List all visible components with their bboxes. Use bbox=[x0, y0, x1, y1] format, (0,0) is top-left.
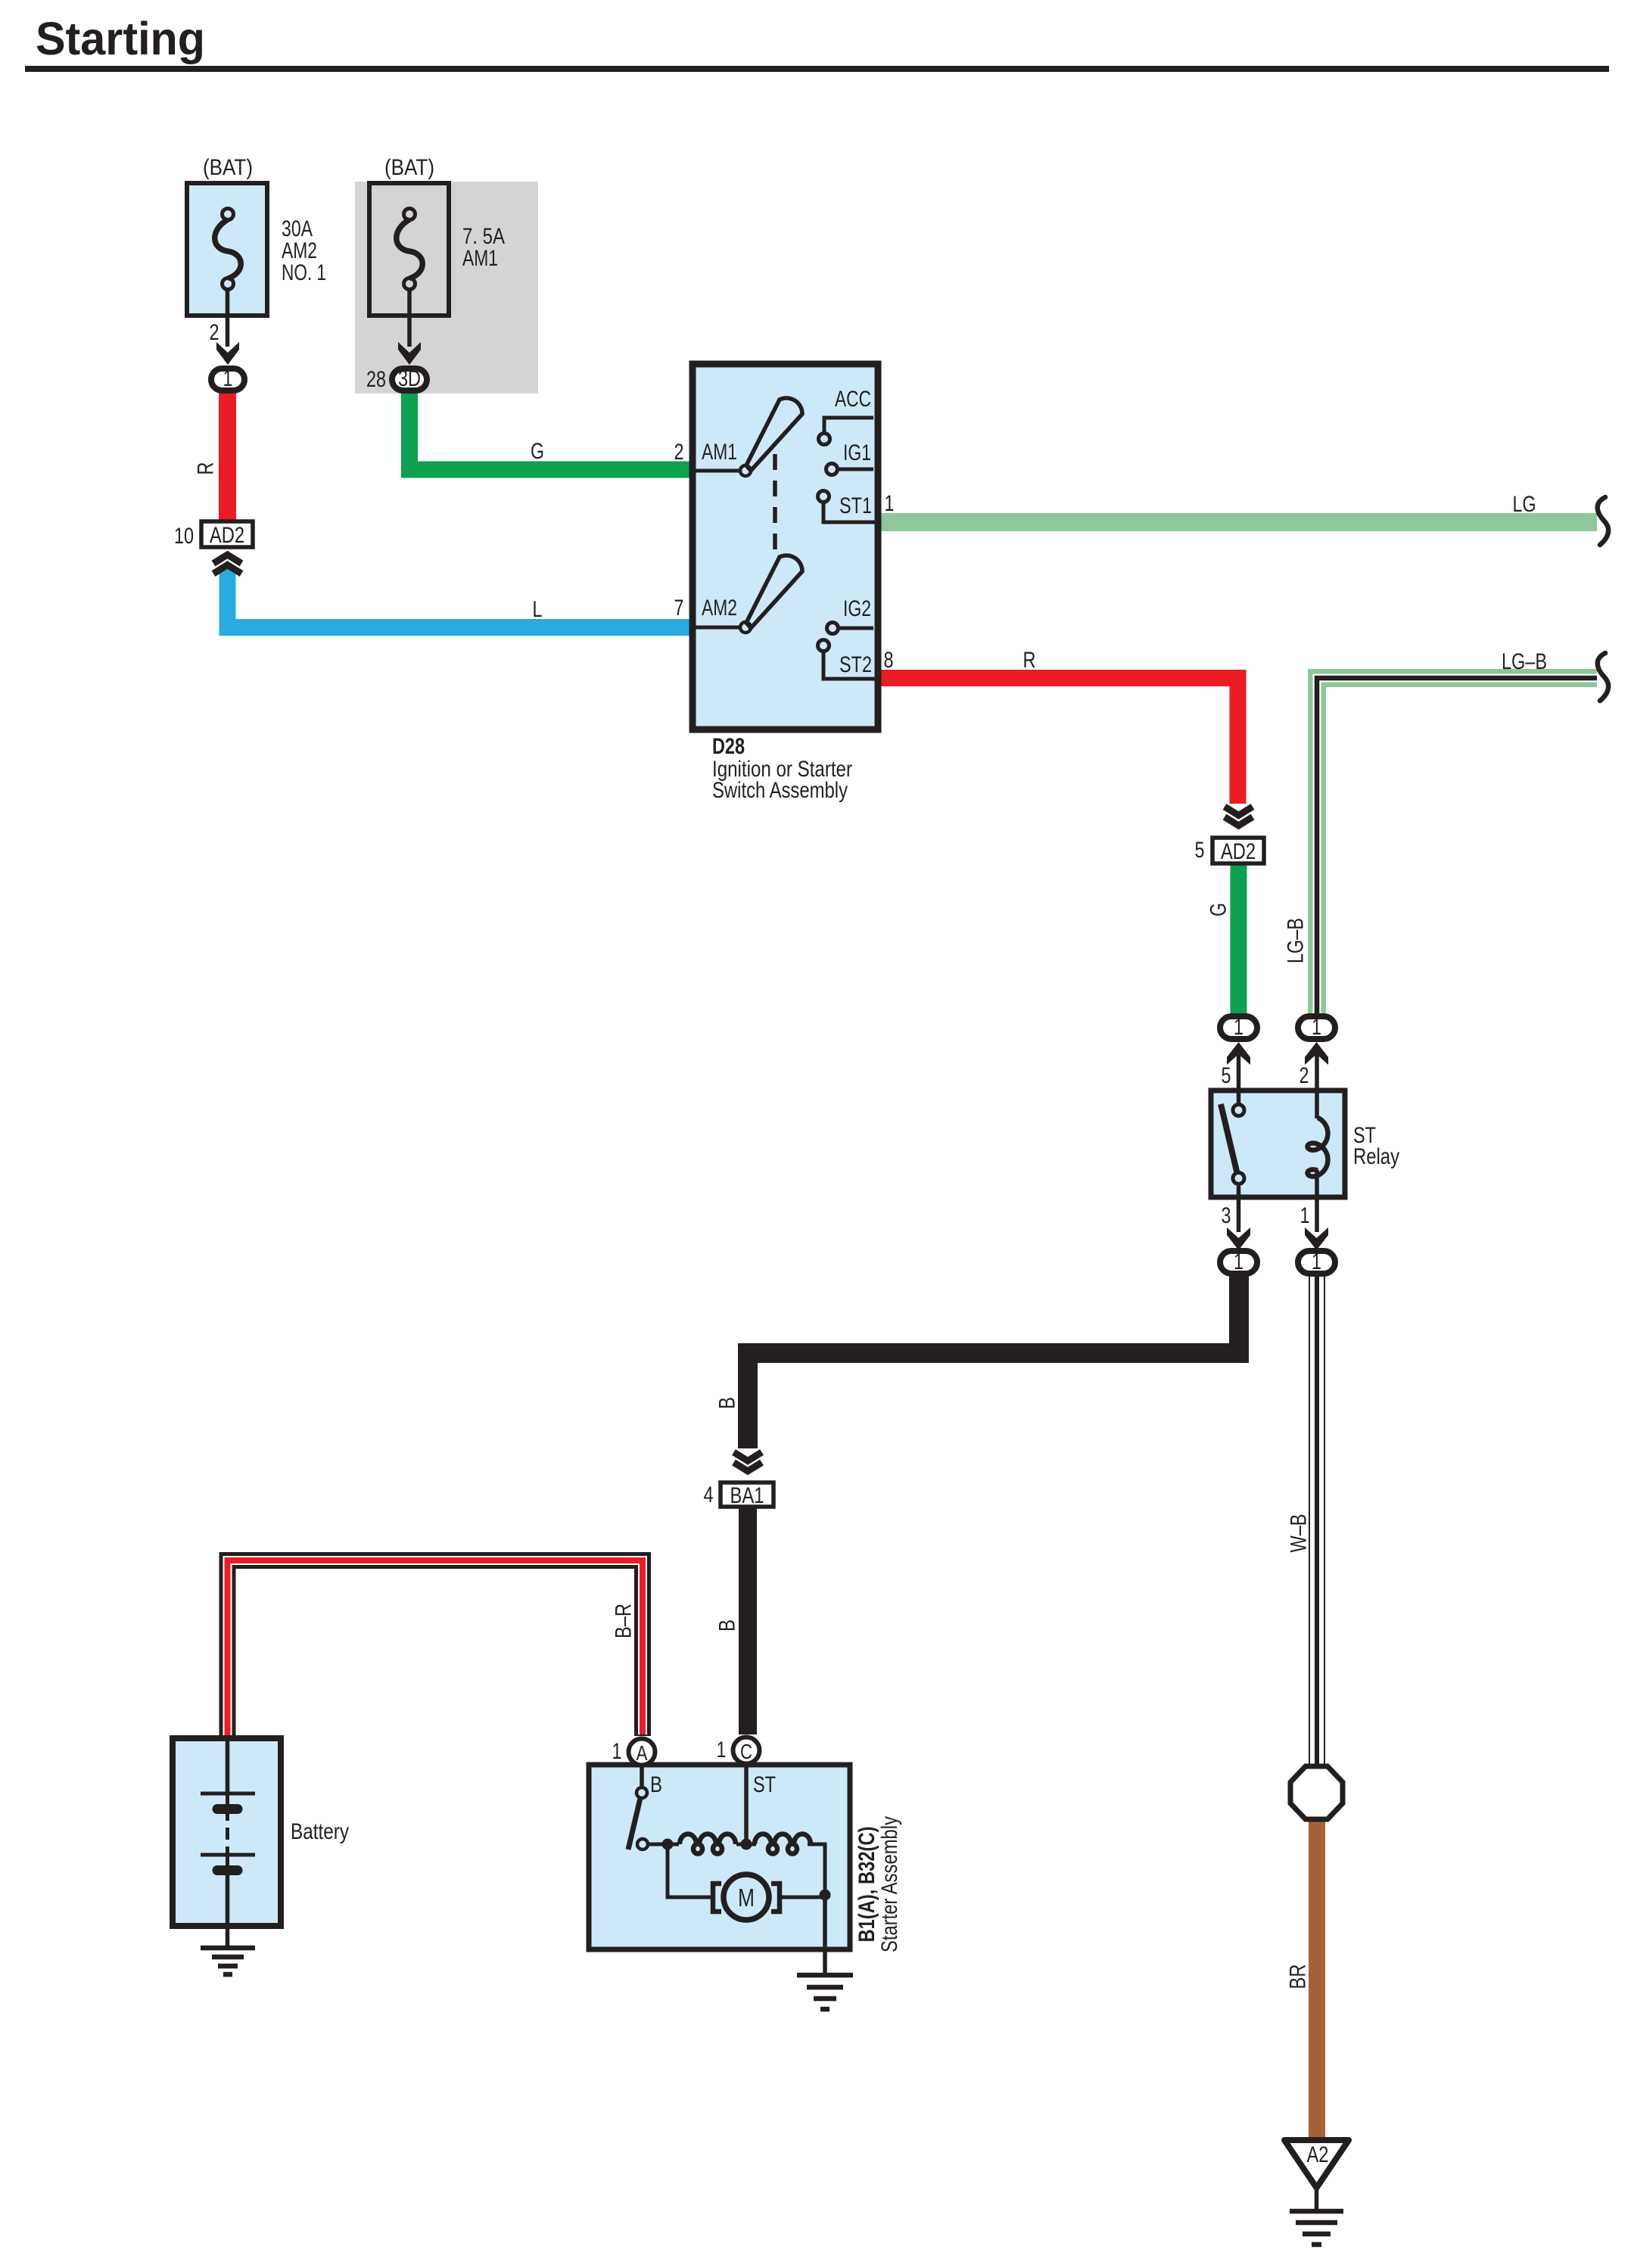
starter wire from switch to coil bbox=[648, 1843, 679, 1846]
relay switch bottom contact bbox=[1233, 1173, 1244, 1184]
starter terminal C circle bbox=[733, 1738, 760, 1764]
D28 IG2 contact wiring bbox=[839, 627, 873, 630]
svg-text:(BAT): (BAT) bbox=[203, 155, 253, 180]
D28 ST1 contact wiring bbox=[823, 502, 876, 522]
arrow up into oval relay pin 5 bbox=[1227, 1042, 1250, 1065]
connector oval 1 above relay pin 2 bbox=[1298, 1015, 1335, 1040]
wire BR from octagon to ground A2 bbox=[1309, 1819, 1325, 2139]
relay switch top contact bbox=[1233, 1105, 1244, 1116]
svg-text:G: G bbox=[1206, 903, 1231, 916]
double chevron down into BA1 bbox=[734, 1452, 762, 1471]
wire G from connector AD2 down to ST relay pin 5 bbox=[1231, 862, 1247, 1016]
svg-text:3: 3 bbox=[1222, 1203, 1231, 1228]
starter switch top contact bbox=[637, 1787, 647, 1798]
fuse AM2 symbol bbox=[215, 209, 241, 290]
svg-text:2: 2 bbox=[674, 440, 684, 465]
svg-text:2: 2 bbox=[1300, 1063, 1309, 1088]
ground lead below A2 triangle bbox=[1315, 2187, 1319, 2211]
battery bottom lead bbox=[226, 1875, 230, 1948]
pin line relay pin 5 bbox=[1237, 1050, 1241, 1105]
battery top lead bbox=[226, 1739, 230, 1793]
arrow down into oval relay pin 1 bbox=[1305, 1227, 1328, 1250]
svg-text:ST2: ST2 bbox=[839, 652, 872, 677]
connector oval 1 below relay pin 1 bbox=[1298, 1249, 1335, 1274]
battery plate long 1 bbox=[201, 1792, 255, 1796]
svg-text:ST: ST bbox=[753, 1772, 776, 1797]
svg-text:Starting: Starting bbox=[36, 13, 205, 64]
svg-text:BR: BR bbox=[1286, 1965, 1311, 1990]
pin line relay pin 2 bbox=[1315, 1050, 1319, 1118]
svg-text:AM1: AM1 bbox=[702, 440, 737, 465]
ground below starter bbox=[797, 1975, 853, 2009]
pin line starter terminal C to coil junction bbox=[744, 1766, 749, 1839]
wire L from connector AD2 to D28 AM2 bbox=[219, 561, 694, 636]
connector oval 1 below relay pin 3 bbox=[1220, 1249, 1257, 1274]
svg-text:28: 28 bbox=[366, 367, 386, 392]
D28 AM2 lead bbox=[696, 626, 740, 630]
connector oval 3D below fuse AM1 bbox=[392, 366, 427, 391]
arrow into oval 1 fuse AM2 bbox=[216, 342, 239, 365]
svg-text:R: R bbox=[194, 462, 219, 475]
svg-text:AD2: AD2 bbox=[210, 523, 244, 548]
svg-text:1: 1 bbox=[1234, 1249, 1243, 1274]
starter M motor circle bbox=[724, 1874, 769, 1920]
svg-text:B: B bbox=[650, 1772, 662, 1797]
title underline bbox=[25, 66, 1609, 72]
connector AD2 box top left bbox=[201, 521, 253, 548]
wire B-R from battery to starter terminal A bbox=[228, 1560, 643, 1739]
svg-text:1: 1 bbox=[1234, 1015, 1243, 1040]
ground triangle A2 bbox=[1284, 2140, 1349, 2188]
svg-text:ACC: ACC bbox=[835, 387, 871, 412]
octagon connector on W-B wire bbox=[1290, 1766, 1343, 1819]
fuse AM1 symbol bbox=[397, 209, 423, 290]
relay block gray background box bbox=[355, 182, 538, 394]
D28 link dashed line bbox=[773, 454, 777, 552]
connector AD2 box right side bbox=[1212, 838, 1264, 864]
svg-text:L: L bbox=[533, 597, 543, 622]
starter M motor right lead bbox=[777, 1896, 825, 1899]
svg-text:5: 5 bbox=[1222, 1063, 1231, 1088]
svg-text:W–B: W–B bbox=[1287, 1514, 1312, 1553]
svg-text:IG2: IG2 bbox=[843, 596, 871, 621]
svg-text:Relay: Relay bbox=[1353, 1144, 1399, 1169]
svg-text:10: 10 bbox=[174, 524, 194, 549]
D28 IG1 contact bbox=[826, 464, 838, 475]
svg-text:1: 1 bbox=[223, 366, 233, 391]
wire W-B from ST relay pin 1 down to connector octagon bbox=[1309, 1274, 1325, 1766]
svg-text:D28: D28 bbox=[712, 734, 745, 759]
pin line fuse AM2 to arrow bbox=[226, 289, 230, 347]
starter terminal A circle bbox=[629, 1739, 655, 1766]
svg-text:R: R bbox=[1023, 648, 1036, 673]
svg-text:B1(A), B32(C): B1(A), B32(C) bbox=[854, 1827, 879, 1943]
svg-text:4: 4 bbox=[704, 1482, 714, 1507]
starter wire between coils bbox=[736, 1843, 756, 1846]
svg-text:AD2: AD2 bbox=[1221, 839, 1256, 864]
battery stem 2 bbox=[226, 1814, 229, 1821]
fuse AM1 box bbox=[369, 183, 449, 316]
arrow down into oval relay pin 3 bbox=[1227, 1227, 1250, 1250]
starter junction dot 3 bbox=[820, 1890, 831, 1901]
wire B from connector BA1 down to starter terminal C bbox=[739, 1507, 757, 1734]
D28 AM1 lever bbox=[746, 398, 802, 471]
battery box bbox=[173, 1738, 281, 1926]
svg-text:B: B bbox=[715, 1397, 740, 1409]
D28 AM2 lever bbox=[746, 555, 802, 628]
relay coil bbox=[1308, 1118, 1328, 1177]
battery stem 3 bbox=[226, 1846, 229, 1855]
D28 ACC contact bbox=[819, 434, 830, 445]
fuse AM2 NO.1 box bbox=[187, 183, 267, 316]
pin line starter terminal A bbox=[640, 1766, 644, 1789]
arrow into oval 3D bbox=[398, 342, 421, 365]
svg-text:8: 8 bbox=[884, 648, 894, 673]
double chevron down into AD2 right bbox=[1225, 807, 1253, 826]
svg-text:2: 2 bbox=[210, 320, 219, 345]
svg-text:LG: LG bbox=[1513, 492, 1536, 517]
svg-text:Battery: Battery bbox=[291, 1819, 349, 1844]
wire R from fuse AM2 to connector AD2 bbox=[219, 392, 236, 521]
starter wire coil2 to corner bbox=[808, 1844, 825, 1895]
double chevron up into AD2 bbox=[213, 555, 241, 574]
battery plate short 2 bbox=[217, 1865, 238, 1875]
D28 AM2 pivot contact bbox=[740, 622, 751, 633]
D28 ST1 contact bbox=[818, 491, 830, 502]
wire R from D28 ST2 pin 8 down to connector AD2 bbox=[877, 678, 1238, 804]
starter junction dot 2 bbox=[741, 1839, 752, 1850]
ST relay box bbox=[1211, 1090, 1345, 1197]
D28 ST2 contact wiring bbox=[823, 652, 876, 679]
svg-text:LG–B: LG–B bbox=[1284, 918, 1309, 963]
wire B from ST relay pin 3 to connector BA1 bbox=[748, 1274, 1239, 1448]
svg-text:1: 1 bbox=[717, 1738, 727, 1762]
svg-text:A2: A2 bbox=[1307, 2142, 1329, 2167]
starter coil 1 bbox=[680, 1834, 736, 1854]
starter assembly box bbox=[589, 1765, 850, 1949]
svg-text:5: 5 bbox=[1195, 838, 1205, 863]
battery center dash bbox=[226, 1828, 229, 1840]
wire LG from D28 ST1 pin 1 to right edge bbox=[877, 513, 1597, 531]
wire break curl at LG-B right end bbox=[1598, 653, 1608, 701]
wire break curl at LG right end bbox=[1598, 497, 1608, 545]
arrow up into oval relay pin 2 bbox=[1305, 1042, 1328, 1065]
ground symbol below A2 bbox=[1290, 2211, 1343, 2245]
svg-text:1: 1 bbox=[885, 491, 895, 516]
svg-text:NO. 1: NO. 1 bbox=[282, 260, 326, 285]
svg-text:M: M bbox=[738, 1884, 755, 1912]
connector BA1 box bbox=[721, 1482, 773, 1508]
svg-text:(BAT): (BAT) bbox=[384, 155, 434, 180]
battery stem 4 bbox=[226, 1855, 229, 1865]
ground below battery bbox=[201, 1948, 255, 1974]
svg-text:AM1: AM1 bbox=[462, 246, 498, 271]
svg-text:Switch Assembly: Switch Assembly bbox=[712, 778, 848, 803]
D28 IG2 contact bbox=[827, 623, 839, 634]
svg-text:LG–B: LG–B bbox=[1502, 649, 1547, 674]
svg-text:BA1: BA1 bbox=[730, 1483, 764, 1508]
D28 IG1 contact wiring bbox=[838, 468, 873, 471]
pin line relay pin 1 bbox=[1315, 1170, 1319, 1232]
pin line fuse AM1 to arrow bbox=[407, 289, 412, 347]
svg-text:IG1: IG1 bbox=[843, 440, 871, 465]
wire LG-B from right edge down to ST relay pin 2 bbox=[1317, 678, 1597, 1016]
D28 AM1 pivot contact bbox=[740, 465, 751, 476]
D28 ST2 contact bbox=[818, 640, 830, 652]
wire G from fuse AM1 3D to D28 AM1 bbox=[409, 390, 693, 470]
starter M motor left lead bbox=[668, 1844, 715, 1897]
relay switch lever bbox=[1221, 1104, 1237, 1174]
D28 ignition switch assembly box bbox=[693, 364, 878, 730]
connector oval 1 below fuse AM2 bbox=[211, 366, 244, 391]
starter coil 2 bbox=[755, 1834, 811, 1854]
starter switch lever bbox=[628, 1798, 640, 1850]
battery stem 1 bbox=[226, 1794, 229, 1804]
D28 AM1 lead bbox=[696, 469, 740, 473]
svg-text:G: G bbox=[531, 439, 544, 464]
svg-text:7: 7 bbox=[674, 596, 684, 621]
svg-text:1: 1 bbox=[1312, 1015, 1321, 1040]
svg-text:B: B bbox=[715, 1619, 740, 1632]
starter ground lead bbox=[823, 1895, 827, 1975]
svg-text:B–R: B–R bbox=[612, 1604, 637, 1638]
svg-text:1: 1 bbox=[1300, 1203, 1310, 1228]
starter M motor right brush bracket bbox=[771, 1884, 780, 1912]
connector oval 1 above relay pin 5 bbox=[1220, 1015, 1257, 1040]
starter switch bottom contact bbox=[637, 1839, 648, 1850]
starter junction dot 1 bbox=[662, 1839, 674, 1850]
svg-text:1: 1 bbox=[1312, 1249, 1321, 1274]
starter M motor left brush bracket bbox=[713, 1884, 721, 1912]
svg-text:ST1: ST1 bbox=[839, 493, 872, 518]
svg-text:1: 1 bbox=[612, 1739, 622, 1764]
svg-text:A: A bbox=[637, 1741, 648, 1765]
svg-text:C: C bbox=[740, 1740, 752, 1763]
svg-text:Starter Assembly: Starter Assembly bbox=[877, 1816, 902, 1952]
svg-text:AM2: AM2 bbox=[702, 596, 737, 621]
pin line relay pin 3 bbox=[1237, 1186, 1241, 1232]
battery plate long 2 bbox=[201, 1853, 255, 1857]
svg-text:3D: 3D bbox=[398, 366, 421, 391]
battery plate short 1 bbox=[217, 1804, 238, 1814]
D28 ACC contact wiring bbox=[824, 418, 873, 432]
